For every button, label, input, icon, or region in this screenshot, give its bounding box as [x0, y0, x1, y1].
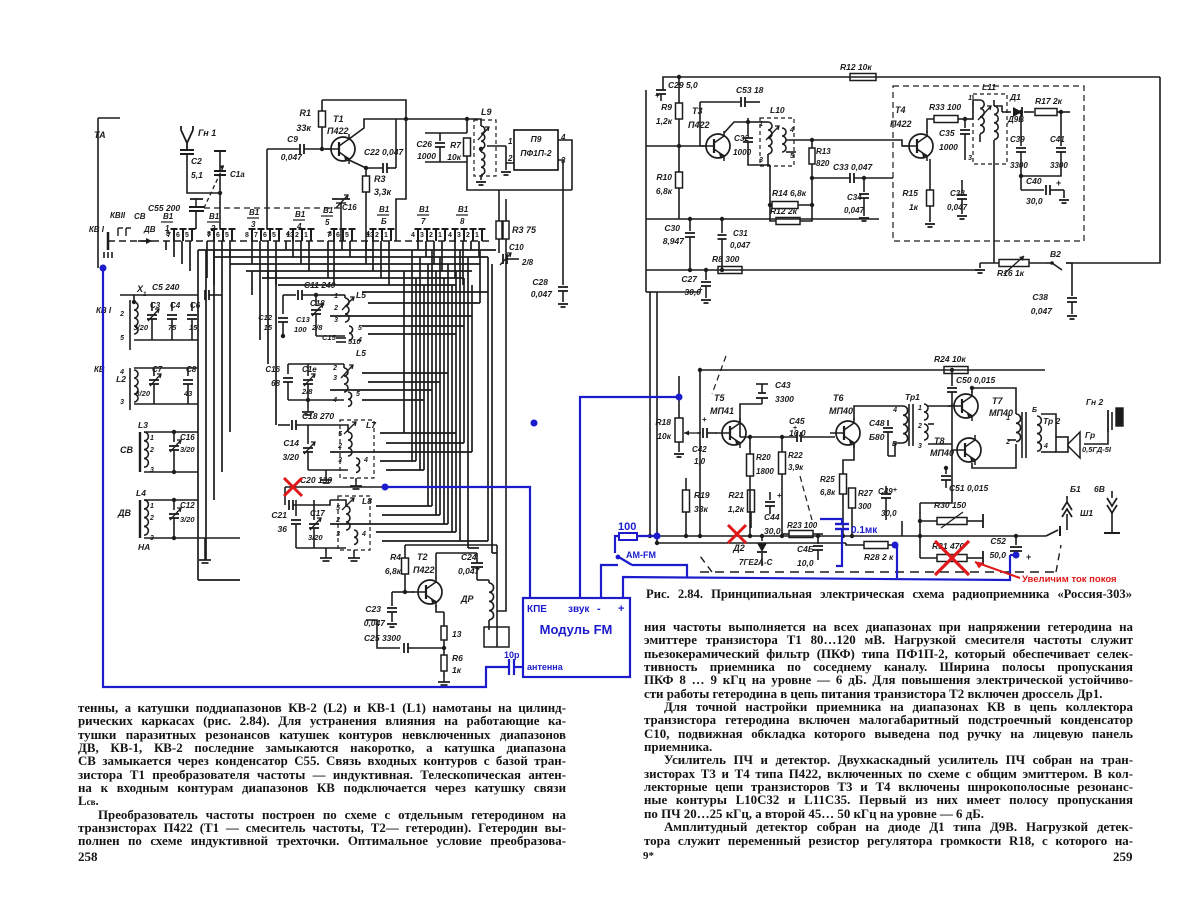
- svg-text:С39: С39: [1010, 135, 1025, 144]
- wire: [144, 431, 198, 433]
- svg-text:Б80: Б80: [869, 432, 885, 442]
- svg-text:5: 5: [272, 232, 276, 239]
- svg-text:Тр 2: Тр 2: [1043, 416, 1061, 426]
- svg-text:П422: П422: [327, 126, 349, 136]
- svg-text:L5: L5: [356, 290, 366, 300]
- svg-text:В1: В1: [419, 205, 430, 214]
- svg-text:L3: L3: [138, 420, 148, 430]
- svg-text:3300: 3300: [1050, 161, 1068, 170]
- svg-text:300: 300: [858, 502, 872, 511]
- wire filter pin4: [558, 140, 572, 190]
- svg-text:2: 2: [429, 232, 433, 239]
- svg-text:10р: 10р: [504, 650, 520, 660]
- red X mark C20: [284, 478, 302, 496]
- blue wire plus terminal to C52: [623, 555, 1010, 598]
- svg-text:7ГЕ2А-С: 7ГЕ2А-С: [739, 558, 773, 567]
- svg-text:Т5: Т5: [714, 393, 725, 403]
- wire to filter: [406, 119, 467, 133]
- svg-text:0,047: 0,047: [1031, 306, 1054, 316]
- svg-text:ДВ: ДВ: [143, 225, 156, 234]
- svg-text:2: 2: [149, 447, 154, 454]
- band switch bus dashed: [108, 240, 490, 242]
- svg-text:Д1: Д1: [1009, 92, 1021, 102]
- wire mesh left column verticals: [197, 250, 199, 580]
- svg-text:Т6: Т6: [833, 393, 844, 403]
- svg-text:3/20: 3/20: [180, 445, 195, 454]
- svg-text:7: 7: [207, 232, 211, 239]
- wire L9 tap to filter pin1: [487, 145, 506, 147]
- left column text: [78, 702, 566, 849]
- svg-text:5: 5: [790, 153, 794, 160]
- svg-text:3: 3: [918, 443, 922, 450]
- svg-text:Т2: Т2: [417, 552, 428, 562]
- battery Б1 leads: [0, 0, 1, 1]
- svg-text:R30 150: R30 150: [934, 500, 966, 510]
- svg-text:5: 5: [336, 505, 340, 512]
- svg-text:С16: С16: [342, 203, 357, 212]
- svg-text:ДР: ДР: [460, 594, 474, 604]
- svg-text:1,2к: 1,2к: [656, 116, 673, 126]
- contact ticks left: [117, 228, 119, 236]
- svg-text:4: 4: [119, 369, 124, 376]
- wire right page left-edge verticals: [649, 292, 651, 536]
- svg-text:С12: С12: [180, 501, 195, 510]
- svg-text:10,0: 10,0: [797, 558, 814, 568]
- svg-text:5: 5: [120, 335, 124, 342]
- svg-text:3: 3: [334, 317, 338, 324]
- wire C9 drop to switch: [266, 149, 268, 229]
- svg-text:В1: В1: [458, 205, 469, 214]
- svg-text:6,8к: 6,8к: [820, 488, 836, 497]
- svg-text:R3: R3: [374, 174, 386, 184]
- svg-text:Т4: Т4: [895, 105, 906, 115]
- svg-text:С17: С17: [310, 509, 325, 518]
- ground: [443, 678, 445, 682]
- svg-text:П9: П9: [531, 134, 542, 144]
- svg-text:В1: В1: [379, 205, 390, 214]
- svg-text:С11 240: С11 240: [304, 280, 336, 290]
- wire T4 collector: [927, 119, 934, 133]
- svg-text:С51 0,015: С51 0,015: [949, 483, 988, 493]
- svg-text:R17 2к: R17 2к: [1035, 96, 1063, 106]
- svg-text:1к: 1к: [452, 665, 462, 675]
- wire T7 T8 collectors to Tr2: [972, 388, 1016, 414]
- footnote 9*: [643, 850, 654, 862]
- svg-text:+: +: [893, 487, 897, 494]
- wire L10 pin4 to T4 base: [786, 139, 812, 141]
- wire T2 emitter: [436, 605, 444, 612]
- trimmer capacitor C1a: [214, 150, 226, 152]
- junction dots rails: [684, 534, 688, 538]
- svg-text:R21: R21: [728, 490, 744, 500]
- svg-text:R28 2 к: R28 2 к: [864, 552, 894, 562]
- svg-text:В2: В2: [1050, 249, 1061, 259]
- svg-text:2: 2: [332, 365, 337, 372]
- wire bus y543: [657, 542, 846, 544]
- wire T1 collector: [349, 119, 406, 139]
- svg-text:3,3к: 3,3к: [374, 187, 392, 197]
- svg-text:5: 5: [325, 218, 330, 227]
- svg-text:R10: R10: [656, 172, 672, 182]
- svg-text:R7: R7: [450, 140, 462, 150]
- svg-text:1: 1: [475, 232, 479, 239]
- svg-text:1,0: 1,0: [694, 457, 706, 466]
- switch contacts group 7: [417, 229, 419, 241]
- svg-text:КВ I: КВ I: [89, 225, 105, 234]
- svg-text:Гн 2: Гн 2: [1086, 397, 1104, 407]
- svg-text:1,2к: 1,2к: [728, 504, 745, 514]
- caption Рис 2.84: [646, 588, 1132, 601]
- antenna Гн1: [186, 141, 188, 151]
- svg-text:6: 6: [263, 232, 267, 239]
- svg-text:2: 2: [119, 311, 124, 318]
- svg-text:ТА: ТА: [94, 130, 106, 140]
- svg-text:2: 2: [333, 305, 338, 312]
- svg-text:68: 68: [271, 379, 280, 388]
- dashed slanted lines inside amp: [712, 356, 726, 394]
- svg-text:0,047: 0,047: [730, 241, 751, 250]
- svg-text:С2: С2: [191, 156, 202, 166]
- blue node dot КПЕ tap: [531, 420, 538, 427]
- svg-text:0,5ГД-5I: 0,5ГД-5I: [1082, 445, 1112, 454]
- wire T5 collector: [739, 416, 741, 437]
- red arrow Увеличим ток покоя: [975, 562, 1020, 578]
- svg-text:R24 10к: R24 10к: [934, 354, 966, 364]
- svg-text:L9: L9: [481, 107, 492, 117]
- svg-text:5: 5: [358, 325, 362, 332]
- wire: [366, 620, 377, 634]
- svg-text:0.1мк: 0.1мк: [851, 525, 878, 536]
- svg-text:R25: R25: [820, 475, 835, 484]
- wire jack to speaker node: [1084, 432, 1108, 444]
- wire mesh staircase horizontals: [198, 249, 496, 251]
- svg-text:2/8: 2/8: [301, 387, 313, 396]
- svg-text:+: +: [777, 491, 782, 500]
- svg-text:1: 1: [304, 232, 308, 239]
- wire bus bottom y536: [646, 535, 1046, 537]
- dashed chassis boundary: [700, 571, 1056, 573]
- wire bus R24 top: [700, 369, 1045, 371]
- svg-text:С9: С9: [287, 134, 298, 144]
- wire bus y270: [646, 269, 980, 271]
- svg-text:С4Б: С4Б: [797, 544, 814, 554]
- svg-text:6: 6: [176, 232, 180, 239]
- svg-text:П422: П422: [688, 120, 710, 130]
- wire Tr2 center tap: [1008, 439, 1016, 441]
- svg-text:30,0: 30,0: [1026, 196, 1043, 206]
- svg-text:1800: 1800: [756, 467, 774, 476]
- inductor L8: [338, 496, 370, 550]
- svg-text:36: 36: [278, 524, 288, 534]
- svg-text:L7: L7: [366, 420, 377, 430]
- svg-text:Б: Б: [1032, 407, 1037, 414]
- svg-text:2: 2: [375, 232, 379, 239]
- svg-text:4: 4: [448, 232, 452, 239]
- capacitor C2 5,1: [180, 149, 194, 151]
- svg-text:НА: НА: [138, 542, 150, 552]
- svg-text:Модуль FM: Модуль FM: [540, 622, 613, 637]
- svg-text:5: 5: [356, 391, 360, 398]
- svg-text:1: 1: [968, 95, 972, 102]
- svg-text:1: 1: [918, 405, 922, 412]
- switch wiper: [107, 232, 110, 250]
- svg-text:2: 2: [466, 232, 470, 239]
- wire: [395, 119, 397, 168]
- svg-text:4: 4: [892, 407, 897, 414]
- svg-text:С44: С44: [764, 512, 780, 522]
- svg-text:3/20: 3/20: [308, 533, 323, 542]
- svg-text:С52: С52: [990, 536, 1006, 546]
- svg-text:С23: С23: [365, 604, 381, 614]
- wire mesh mid verticals: [251, 271, 253, 295]
- svg-text:+: +: [702, 415, 707, 424]
- wire mesh coil-row horizontals: [362, 291, 488, 293]
- wire T3 base rail: [646, 145, 705, 147]
- svg-text:3: 3: [150, 467, 154, 474]
- svg-text:100: 100: [618, 521, 636, 533]
- svg-text:3300: 3300: [775, 394, 794, 404]
- svg-text:L4: L4: [136, 488, 146, 498]
- red X mark R21: [728, 525, 746, 543]
- svg-text:Т8: Т8: [934, 436, 945, 446]
- wire: [134, 367, 198, 369]
- svg-text:2: 2: [149, 515, 154, 522]
- wire collector top: [322, 100, 406, 119]
- wire left page right-edge vertical: [497, 239, 506, 611]
- svg-text:R3 75: R3 75: [512, 225, 537, 235]
- svg-text:0,047: 0,047: [947, 203, 968, 212]
- svg-text:R15: R15: [902, 188, 918, 198]
- svg-text:R19: R19: [694, 490, 710, 500]
- svg-text:8,947: 8,947: [663, 236, 686, 246]
- svg-text:3/20: 3/20: [133, 323, 148, 332]
- switch contacts group 3: [251, 229, 253, 241]
- svg-text:С15: С15: [322, 333, 337, 342]
- wire: [678, 376, 680, 380]
- svg-text:КВII: КВII: [110, 211, 126, 220]
- svg-text:В1: В1: [323, 206, 334, 215]
- wire bus y292: [657, 291, 700, 293]
- svg-text:R14 6,8к: R14 6,8к: [772, 188, 807, 198]
- svg-text:1к: 1к: [909, 202, 919, 212]
- svg-text:R4: R4: [390, 552, 401, 562]
- svg-text:5,1: 5,1: [191, 170, 203, 180]
- svg-text:R33 100: R33 100: [929, 102, 961, 112]
- svg-text:ДВ: ДВ: [117, 508, 131, 518]
- svg-text:С28: С28: [532, 277, 548, 287]
- wire T6 collector to Tr1: [854, 406, 903, 420]
- wire C20 node: [285, 486, 385, 488]
- switch contacts group 8: [454, 229, 456, 241]
- capacitor C5 coupling: [204, 290, 206, 300]
- svg-text:С33 0,047: С33 0,047: [833, 162, 873, 172]
- mechanical gang link dashed: [204, 207, 340, 209]
- svg-text:3/20: 3/20: [180, 515, 195, 524]
- svg-text:П422: П422: [890, 119, 912, 129]
- svg-text:Гр: Гр: [1085, 430, 1095, 440]
- svg-text:3/20: 3/20: [135, 389, 150, 398]
- blue wire R28 tap: [895, 545, 897, 578]
- svg-text:3: 3: [338, 457, 342, 464]
- svg-text:3: 3: [457, 232, 461, 239]
- svg-text:30,0: 30,0: [881, 509, 897, 518]
- svg-text:С53 18: С53 18: [736, 85, 764, 95]
- ground: [979, 263, 981, 268]
- svg-text:1: 1: [150, 435, 154, 442]
- wire right edge vertical: [1066, 77, 1160, 263]
- svg-text:L10: L10: [770, 105, 785, 115]
- svg-text:13: 13: [452, 629, 462, 639]
- wire filter pin3: [558, 160, 563, 215]
- svg-text:1000: 1000: [939, 142, 958, 152]
- inductor L7: [340, 420, 374, 478]
- svg-text:3: 3: [333, 375, 337, 382]
- ground: [325, 548, 327, 554]
- svg-text:3: 3: [336, 531, 340, 538]
- svg-text:Т3: Т3: [692, 106, 703, 116]
- svg-text:С25 3300: С25 3300: [364, 633, 401, 643]
- svg-text:100: 100: [294, 325, 307, 334]
- wire: [187, 154, 220, 193]
- resistor R5 13: [441, 626, 447, 640]
- blue wire minus terminal: [601, 565, 618, 598]
- wire: [562, 215, 564, 285]
- switch contacts group 6: [372, 229, 374, 241]
- ground: [307, 400, 309, 408]
- wire L11 secondary to D1: [994, 106, 1002, 112]
- wire: [699, 370, 701, 536]
- svg-text:С18 270: С18 270: [302, 411, 334, 421]
- svg-text:4: 4: [411, 232, 415, 239]
- wire: [98, 117, 120, 119]
- wire: [467, 170, 572, 190]
- svg-text:3: 3: [251, 220, 256, 229]
- svg-text:6: 6: [216, 232, 220, 239]
- svg-text:1: 1: [1006, 415, 1010, 422]
- blue module box Модуль FM: [523, 598, 630, 677]
- svg-text:R16 1к: R16 1к: [997, 268, 1025, 278]
- svg-text:1: 1: [438, 232, 442, 239]
- svg-text:1: 1: [384, 232, 388, 239]
- svg-text:L11: L11: [982, 82, 996, 92]
- svg-text:Т1: Т1: [333, 114, 344, 124]
- svg-text:7: 7: [254, 232, 258, 239]
- page number 258: [78, 849, 98, 865]
- svg-text:С41: С41: [1050, 135, 1065, 144]
- svg-text:-: -: [597, 603, 601, 615]
- wire mesh extra verticals: [411, 250, 413, 461]
- svg-text:С10: С10: [509, 243, 524, 252]
- svg-text:6,8к: 6,8к: [656, 186, 673, 196]
- svg-text:С1е: С1е: [302, 365, 317, 374]
- blue wire КПЕ line: [385, 487, 530, 598]
- svg-text:Д2: Д2: [732, 543, 745, 553]
- svg-text:820: 820: [816, 159, 830, 168]
- svg-text:С21: С21: [271, 510, 287, 520]
- svg-text:1000: 1000: [733, 148, 752, 157]
- svg-text:L5: L5: [356, 348, 366, 358]
- svg-text:В1: В1: [209, 212, 220, 221]
- wire T3 collector: [724, 122, 748, 133]
- svg-text:С1а: С1а: [230, 170, 245, 179]
- svg-text:R6: R6: [452, 653, 463, 663]
- svg-text:R1: R1: [299, 108, 311, 118]
- svg-text:5: 5: [225, 232, 229, 239]
- svg-text:3/20: 3/20: [282, 452, 299, 462]
- capacitor C50 link: [951, 404, 953, 406]
- svg-text:МП40: МП40: [930, 448, 954, 458]
- svg-text:2: 2: [507, 154, 513, 163]
- svg-text:R9: R9: [661, 102, 672, 112]
- wire: [134, 294, 198, 296]
- wire filter pin2 ground: [506, 146, 514, 163]
- switch contacts group 5: [333, 229, 335, 241]
- svg-text:С30: С30: [664, 223, 680, 233]
- svg-text:Гн 1: Гн 1: [198, 128, 216, 138]
- wire Tr1 secondary to T7 T8: [928, 405, 952, 407]
- svg-text:2: 2: [295, 232, 299, 239]
- svg-text:4: 4: [357, 337, 362, 344]
- svg-text:МП40: МП40: [829, 406, 853, 416]
- svg-text:С16: С16: [180, 433, 195, 442]
- svg-text:С12: С12: [258, 313, 273, 322]
- svg-text:2/8: 2/8: [521, 258, 534, 267]
- svg-text:+: +: [618, 603, 624, 615]
- svg-text:С14: С14: [283, 438, 299, 448]
- svg-text:R20: R20: [756, 453, 771, 462]
- svg-text:10к: 10к: [657, 431, 671, 441]
- svg-text:50,0: 50,0: [989, 550, 1006, 560]
- svg-text:7: 7: [327, 232, 331, 239]
- svg-text:15: 15: [189, 323, 198, 332]
- svg-text:С31: С31: [733, 229, 748, 238]
- svg-text:С40: С40: [1026, 176, 1042, 186]
- wire oscillator frame: [405, 544, 497, 546]
- svg-text:R12 2к: R12 2к: [770, 206, 798, 216]
- wire: [396, 119, 406, 241]
- svg-text:В1: В1: [295, 210, 306, 219]
- svg-text:33к: 33к: [296, 123, 311, 133]
- svg-text:+: +: [1026, 552, 1031, 562]
- svg-text:С48: С48: [869, 418, 885, 428]
- svg-text:С42: С42: [692, 445, 707, 454]
- wire: [920, 404, 952, 503]
- ground: [204, 538, 206, 556]
- svg-text:0,047: 0,047: [844, 206, 865, 215]
- svg-text:L8: L8: [362, 496, 372, 506]
- svg-text:2: 2: [917, 423, 922, 430]
- svg-text:7: 7: [421, 217, 426, 226]
- svg-text:С13: С13: [296, 315, 311, 324]
- svg-text:Тр1: Тр1: [905, 392, 920, 402]
- svg-text:КПЕ: КПЕ: [527, 604, 547, 615]
- wire: [97, 118, 99, 268]
- blue antenna wire left loop: [103, 268, 509, 687]
- svg-text:1: 1: [508, 137, 513, 146]
- wire: [134, 339, 198, 341]
- svg-text:4: 4: [363, 457, 368, 464]
- wire T1 emitter to C22/R3: [349, 160, 366, 168]
- svg-text:3: 3: [968, 155, 972, 162]
- ground: [325, 470, 327, 476]
- svg-text:+: +: [793, 425, 797, 432]
- svg-text:С16: С16: [265, 365, 280, 374]
- svg-text:АМ-FM: АМ-FM: [626, 550, 656, 560]
- resistor R3 3,3k: [365, 168, 367, 176]
- svg-text:СВ: СВ: [134, 212, 146, 221]
- resistor R6 1k: [441, 655, 447, 671]
- svg-text:С43: С43: [775, 380, 791, 390]
